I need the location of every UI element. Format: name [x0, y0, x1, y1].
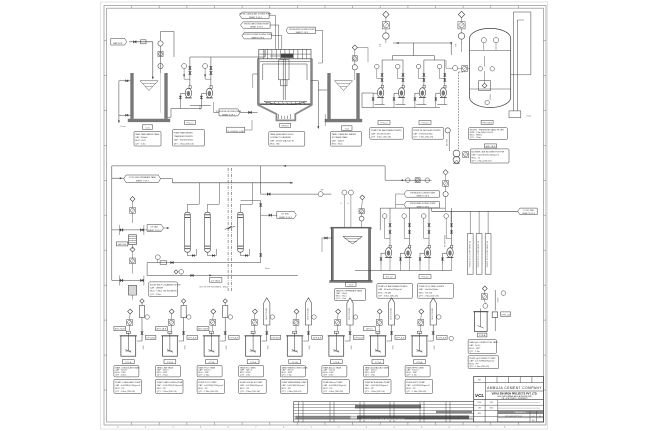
svg-text:DT1-A: DT1-A [125, 361, 131, 364]
svg-text:QTY : 2 Nos (1W+1S): QTY : 2 Nos (1W+1S) [371, 137, 391, 139]
svg-text:PH : 0724-2258073 · 9422858073: PH : 0724-2258073 · 9422858073 [502, 398, 528, 400]
svg-text:PG-3,4: PG-3,4 [422, 277, 430, 279]
svg-text:CAP : 30m3/hr@30m: CAP : 30m3/hr@30m [174, 139, 194, 142]
svg-text:MOC : PP: MOC : PP [198, 388, 208, 390]
svg-text:SHEET 3 OF 4: SHEET 3 OF 4 [252, 37, 265, 39]
svg-text:CAP : 4/5m3/hr@3Kg/cm2: CAP : 4/5m3/hr@3Kg/cm2 [378, 288, 403, 291]
svg-text:RO HP PUMP: RO HP PUMP [444, 234, 446, 247]
svg-text:DT6-A: DT6-A [333, 361, 339, 364]
svg-text:TO SLUDGE HOLDING TANK: TO SLUDGE HOLDING TANK [216, 110, 242, 113]
svg-text:DT TEST: DT TEST [211, 280, 221, 282]
svg-text:PUMP pH CORRECT PUMP: PUMP pH CORRECT PUMP [469, 358, 496, 360]
svg-text:SHEET 3 OF 4: SHEET 3 OF 4 [249, 17, 262, 19]
svg-text:PUMP POLY PUMP: PUMP POLY PUMP [198, 382, 217, 384]
svg-text:QTY : 2 Nos (1W+1S): QTY : 2 Nos (1W+1S) [419, 296, 439, 298]
svg-text:AGT-2A,B: AGT-2A,B [156, 328, 166, 331]
svg-text:SHEET 3 OF 4: SHEET 3 OF 4 [250, 27, 263, 29]
svg-text:TRANSFER PUMPS: TRANSFER PUMPS [174, 135, 194, 138]
svg-text:DT3-A: DT3-A [209, 361, 215, 364]
svg-text:MOC : FRP: MOC : FRP [469, 348, 480, 350]
svg-text:TANK pH CORRECTION TANK: TANK pH CORRECTION TANK [469, 341, 498, 344]
svg-text:TO RO SKID: TO RO SKID [523, 210, 535, 212]
svg-text:25NB: 25NB [184, 346, 186, 350]
svg-text:NO OF DP HOUSING - 4Nos: NO OF DP HOUSING - 4Nos [200, 287, 229, 289]
svg-text:QTY : 1 No: QTY : 1 No [469, 351, 480, 353]
svg-text:CAP : 50 Ltr: CAP : 50 Ltr [469, 344, 480, 347]
svg-text:VIRAJ ENVIRON PROJECTS PVT. LT: VIRAJ ENVIRON PROJECTS PVT. LTD. [492, 392, 538, 395]
svg-text:25NB: 25NB [143, 346, 145, 350]
svg-text:PUMP DP BACKWASH PUMPS: PUMP DP BACKWASH PUMPS [378, 285, 408, 288]
svg-text:VEPL/ACC/WTP-01: VEPL/ACC/WTP-01 [505, 415, 522, 418]
svg-text:AMBUJA CEMENT COMPANY: AMBUJA CEMENT COMPANY [487, 386, 542, 390]
svg-text:DT4-A: DT4-A [250, 361, 256, 364]
svg-text:PUMP PSF BACKWASH PUMPS: PUMP PSF BACKWASH PUMPS [371, 129, 402, 132]
svg-text:MOC : PP: MOC : PP [282, 388, 292, 390]
svg-text:DT7-A: DT7-A [375, 361, 381, 364]
svg-text:QTY : 2 Nos: QTY : 2 Nos [115, 374, 126, 376]
svg-text:MOC : RCC: MOC : RCC [332, 144, 343, 146]
svg-text:MOC : PP: MOC : PP [115, 388, 125, 390]
svg-text:MOC : RCC: MOC : RCC [135, 140, 146, 142]
svg-text:REJECT TO CLG TWR SHEET 2/4: REJECT TO CLG TWR SHEET 2/4 [478, 241, 480, 267]
svg-text:QTY : 2 Nos: QTY : 2 Nos [157, 374, 168, 376]
svg-text:25NB: 25NB [434, 346, 436, 350]
svg-text:Drain: Drain [527, 116, 532, 118]
svg-text:FROM HPPD DOSING PUMP: FROM HPPD DOSING PUMP [289, 29, 315, 31]
svg-text:QTY : 1 No: QTY : 1 No [240, 374, 251, 376]
svg-text:25NB: 25NB [268, 346, 270, 350]
svg-text:CAP : 100m3/hr@0.35Kg/cm2: CAP : 100m3/hr@0.35Kg/cm2 [472, 153, 500, 156]
svg-text:ARV-1A: ARV-1A [118, 243, 126, 246]
svg-text:R0: R0 [532, 416, 534, 418]
svg-text:DT8-A: DT8-A [417, 361, 423, 364]
svg-text:CAP : 0-6LPM@5Kg/cm2: CAP : 0-6LPM@5Kg/cm2 [323, 384, 347, 387]
svg-text:QTY : 2 Nos (1W+1S): QTY : 2 Nos (1W+1S) [282, 391, 302, 393]
svg-text:Drain: Drain [121, 126, 126, 128]
svg-text:MOC : CRILL TW 304 MESH: MOC : CRILL TW 304 MESH [150, 291, 177, 293]
svg-text:FLUSHING LINE: FLUSHING LINE [227, 131, 244, 133]
svg-text:DP7-A,B: DP7-A,B [396, 337, 405, 340]
svg-text:QTY : 1 Nos (1W+1S): QTY : 1 Nos (1W+1S) [365, 391, 385, 393]
svg-text:DT5-A: DT5-A [292, 361, 298, 364]
svg-text:CAP : 45m3/hr@18m: CAP : 45m3/hr@18m [371, 132, 391, 135]
svg-text:QTY : 2 Nos (1W+1S): QTY : 2 Nos (1W+1S) [378, 296, 398, 298]
svg-text:CAP : 4/3.0m DIA,3.0m Ht: CAP : 4/3.0m DIA,3.0m Ht [270, 139, 294, 142]
svg-text:TANK RO PERMEATE TANK: TANK RO PERMEATE TANK [336, 289, 363, 292]
svg-text:SHEET 3 OF 4: SHEET 3 OF 4 [279, 217, 292, 219]
svg-text:QTY : 1 No: QTY : 1 No [282, 374, 293, 376]
svg-text:CAP : 0-6LPM@5Kg/cm2: CAP : 0-6LPM@5Kg/cm2 [282, 384, 306, 387]
svg-text:MOC : PP: MOC : PP [365, 388, 375, 390]
svg-text:1/4: 1/4 [539, 416, 541, 418]
svg-text:DP TEST: DP TEST [281, 213, 290, 215]
svg-text:QTY : 2 Nos (1W+1S): QTY : 2 Nos (1W+1S) [157, 391, 177, 393]
svg-text:PG-3,4: PG-3,4 [422, 123, 430, 125]
svg-text:QTY : 1 Nos (1W+1S): QTY : 1 Nos (1W+1S) [406, 391, 426, 393]
svg-text:CAP : 18M3/H: CAP : 18M3/H [150, 287, 164, 290]
svg-text:TO RO SKID PERMEATE TANK: TO RO SKID PERMEATE TANK [129, 176, 157, 179]
svg-text:PG-1,2: PG-1,2 [381, 123, 389, 125]
svg-text:PUMP SMBS/SMBS PUMP: PUMP SMBS/SMBS PUMP [282, 382, 308, 384]
svg-text:QTY : 2 Nos (1W+1S): QTY : 2 Nos (1W+1S) [198, 391, 218, 393]
svg-text:HRSCC: HRSCC [281, 125, 289, 127]
svg-text:FROM LIME DOSING PUMP: FROM LIME DOSING PUMP [244, 24, 269, 26]
svg-text:AGT-1A,B: AGT-1A,B [115, 328, 125, 331]
svg-text:PUMP LIME DOSING PUMP: PUMP LIME DOSING PUMP [157, 382, 184, 384]
svg-text:DT8-A: DT8-A [479, 334, 486, 337]
svg-text:SHEET 2 OF 4: SHEET 2 OF 4 [136, 180, 149, 182]
svg-text:DPR-1,B: DPR-1,B [501, 314, 510, 316]
svg-text:CAP : 0-6LPM@5Kg/cm2: CAP : 0-6LPM@5Kg/cm2 [365, 384, 389, 387]
svg-text:MOC : SS 316: MOC : SS 316 [419, 292, 433, 294]
svg-text:CONTACT CLARIFIER: CONTACT CLARIFIER [270, 136, 291, 139]
svg-text:QTY : 2 Nos (1W+1S): QTY : 2 Nos (1W+1S) [174, 143, 194, 145]
svg-text:QTY : 2 Nos: QTY : 2 Nos [198, 374, 209, 376]
svg-text:MOC : PP: MOC : PP [240, 388, 250, 390]
svg-text:FROM COAGULANT DOSING PUMP: FROM COAGULANT DOSING PUMP [240, 13, 273, 16]
svg-text:QTY : 1 No: QTY : 1 No [406, 374, 417, 376]
svg-text:DP1-A,B: DP1-A,B [146, 337, 155, 340]
svg-text:PUMP AScale PUMP: PUMP AScale PUMP [323, 381, 343, 384]
svg-text:AGT-4: AGT-4 [366, 328, 373, 331]
svg-text:TANK RAW WATER TANK: TANK RAW WATER TANK [135, 133, 160, 136]
svg-text:QTY : 1 Nos (1W+1S): QTY : 1 Nos (1W+1S) [323, 391, 343, 393]
svg-text:DP8-A,B: DP8-A,B [438, 337, 447, 340]
svg-text:CAP : 850m3: CAP : 850m3 [135, 136, 148, 139]
svg-text:QTY : 2 Nos (1W+1S): QTY : 2 Nos (1W+1S) [472, 160, 492, 162]
svg-text:DP3-A,B: DP3-A,B [230, 337, 239, 340]
svg-text:25NB: 25NB [392, 346, 394, 350]
svg-text:SHEET 2 OF 4: SHEET 2 OF 4 [522, 213, 535, 215]
svg-text:QTY : 2 Nos: QTY : 2 Nos [150, 294, 161, 296]
svg-text:PG-1,2: PG-1,2 [187, 123, 195, 125]
svg-text:PUMP HCL/ACID PUMP: PUMP HCL/ACID PUMP [240, 381, 263, 384]
svg-text:DP 1A,B: DP 1A,B [151, 225, 159, 228]
svg-text:PG-1,2: PG-1,2 [386, 277, 394, 279]
svg-text:QTY : 1 Nos: QTY : 1 Nos [470, 137, 481, 139]
svg-text:CAP : 0-6LPM@5Kg/cm2: CAP : 0-6LPM@5Kg/cm2 [406, 384, 430, 387]
svg-text:TANK CLARIFIED WATER: TANK CLARIFIED WATER [332, 133, 357, 136]
svg-text:A3: A3 [532, 419, 534, 422]
svg-text:STORAGE TANK: STORAGE TANK [332, 136, 348, 139]
svg-text:CAP : 0-7.6LPM@5Kg/cm2: CAP : 0-7.6LPM@5Kg/cm2 [469, 360, 495, 363]
svg-text:T-02: T-02 [345, 128, 350, 130]
svg-text:REJECT TO CLG TWR SHEET 2/4: REJECT TO CLG TWR SHEET 2/4 [487, 241, 489, 267]
svg-text:T-01: T-01 [145, 127, 150, 129]
svg-text:DT2-A: DT2-A [167, 361, 173, 364]
svg-text:AIR LINE: AIR LINE [445, 138, 448, 146]
svg-text:QTY : 2 Nos (1W+1S): QTY : 2 Nos (1W+1S) [413, 137, 433, 139]
svg-text:RAW WTR: RAW WTR [113, 42, 123, 45]
svg-text:SHEET 3 OF 4: SHEET 3 OF 4 [148, 230, 161, 232]
svg-text:QTY : 1 No: QTY : 1 No [365, 374, 376, 376]
svg-text:AGT-3A,B: AGT-3A,B [198, 328, 208, 331]
svg-text:FROM ACID DOSING PUMP: FROM ACID DOSING PUMP [411, 191, 436, 194]
svg-text:MOC : PP: MOC : PP [469, 363, 479, 365]
svg-text:CAP : 100m3: CAP : 100m3 [332, 139, 345, 142]
svg-text:FROM POLYMER DOSING PUMP: FROM POLYMER DOSING PUMP [243, 34, 273, 36]
svg-text:25NB: 25NB [351, 346, 353, 350]
svg-text:CAP : 0-6LPM@5Kg/cm2: CAP : 0-6LPM@5Kg/cm2 [240, 384, 264, 387]
svg-text:ABF-1A,B: ABF-1A,B [486, 145, 496, 148]
svg-text:QTY : 1 Nos (1W+1S): QTY : 1 Nos (1W+1S) [469, 366, 489, 368]
svg-text:SHEET 3 OF 4: SHEET 3 OF 4 [417, 196, 430, 198]
svg-text:PUMP ACID/ALKALI PUMP: PUMP ACID/ALKALI PUMP [365, 381, 391, 384]
svg-text:SHEET 1 OF 4: SHEET 1 OF 4 [296, 32, 309, 34]
svg-text:CAP : 0-6LPM@3.5Kg/cm2: CAP : 0-6LPM@3.5Kg/cm2 [198, 384, 224, 387]
svg-text:QTY : 2 Nos (1W+1S): QTY : 2 Nos (1W+1S) [240, 391, 260, 393]
svg-text:TANK HIGH RATE SOLID: TANK HIGH RATE SOLID [270, 133, 294, 136]
svg-text:MOC : CI: MOC : CI [472, 157, 481, 159]
svg-text:DP6-A,B: DP6-A,B [354, 337, 363, 340]
svg-text:DP4-A,B: DP4-A,B [271, 337, 280, 340]
svg-text:QTY : 1 No: QTY : 1 No [135, 143, 146, 145]
svg-text:CAP : 18m3/hr@30m: CAP : 18m3/hr@30m [413, 132, 433, 135]
svg-text:PSF-1A,B: PSF-1A,B [482, 121, 492, 124]
svg-text:25NB: 25NB [226, 346, 228, 350]
svg-text:MOC : MS: MOC : MS [270, 144, 280, 146]
svg-text:QTY : 1 No: QTY : 1 No [336, 298, 347, 300]
svg-text:MOC : PP: MOC : PP [157, 388, 167, 390]
svg-text:PUMP RAW WATER: PUMP RAW WATER [174, 131, 193, 134]
svg-text:Drain: Drain [265, 268, 270, 270]
svg-text:CAP : 0-6LPM@3.5Kg/cm2: CAP : 0-6LPM@3.5Kg/cm2 [115, 384, 141, 387]
svg-text:BLOWER : AIR BLOWER FOR PSF: BLOWER : AIR BLOWER FOR PSF [472, 150, 506, 153]
svg-text:EQUIP SELF CLEANING FILTER: EQUIP SELF CLEANING FILTER [150, 283, 181, 286]
svg-text:P&ID FOR 15m3/hr WTP, DETAILS: P&ID FOR 15m3/hr WTP, DETAILS AS SHOWN [362, 418, 405, 421]
svg-text:PUMP FILTER FEED PUMPS: PUMP FILTER FEED PUMPS [413, 130, 441, 132]
svg-text:MOC : SS 304: MOC : SS 304 [378, 292, 392, 294]
svg-text:DP2-A,B: DP2-A,B [188, 337, 197, 340]
svg-text:FROM SMBS DOSING PUMP: FROM SMBS DOSING PUMP [410, 203, 436, 205]
svg-text:DP5-A,B: DP5-A,B [313, 337, 322, 340]
svg-text:25NB: 25NB [309, 346, 311, 350]
svg-text:SHEET 2 OF 4: SHEET 2 OF 4 [222, 114, 235, 116]
svg-text:VCL: VCL [475, 393, 484, 398]
svg-text:PUMP RO-1 FEED PUMPS: PUMP RO-1 FEED PUMPS [419, 286, 445, 288]
svg-text:T-03: T-03 [349, 285, 354, 287]
svg-text:QTY : 2 Nos (1W+1S): QTY : 2 Nos (1W+1S) [115, 391, 135, 393]
svg-text:CAP : 0-12LPM@3.5Kg/cm2: CAP : 0-12LPM@3.5Kg/cm2 [157, 384, 184, 387]
svg-text:PUMP COAGULANT PUMP: PUMP COAGULANT PUMP [115, 381, 141, 384]
svg-text:PUMP HPPD PUMP: PUMP HPPD PUMP [406, 382, 425, 384]
svg-text:MOC : PP: MOC : PP [406, 388, 416, 390]
svg-text:CAP : 15m3/hr@60m: CAP : 15m3/hr@60m [419, 288, 439, 291]
svg-text:REJECT TO CLG TWR SHEET 2/4: REJECT TO CLG TWR SHEET 2/4 [469, 241, 471, 267]
svg-text:MOC : PP: MOC : PP [323, 388, 333, 390]
svg-text:QTY : 1 No: QTY : 1 No [323, 374, 334, 376]
